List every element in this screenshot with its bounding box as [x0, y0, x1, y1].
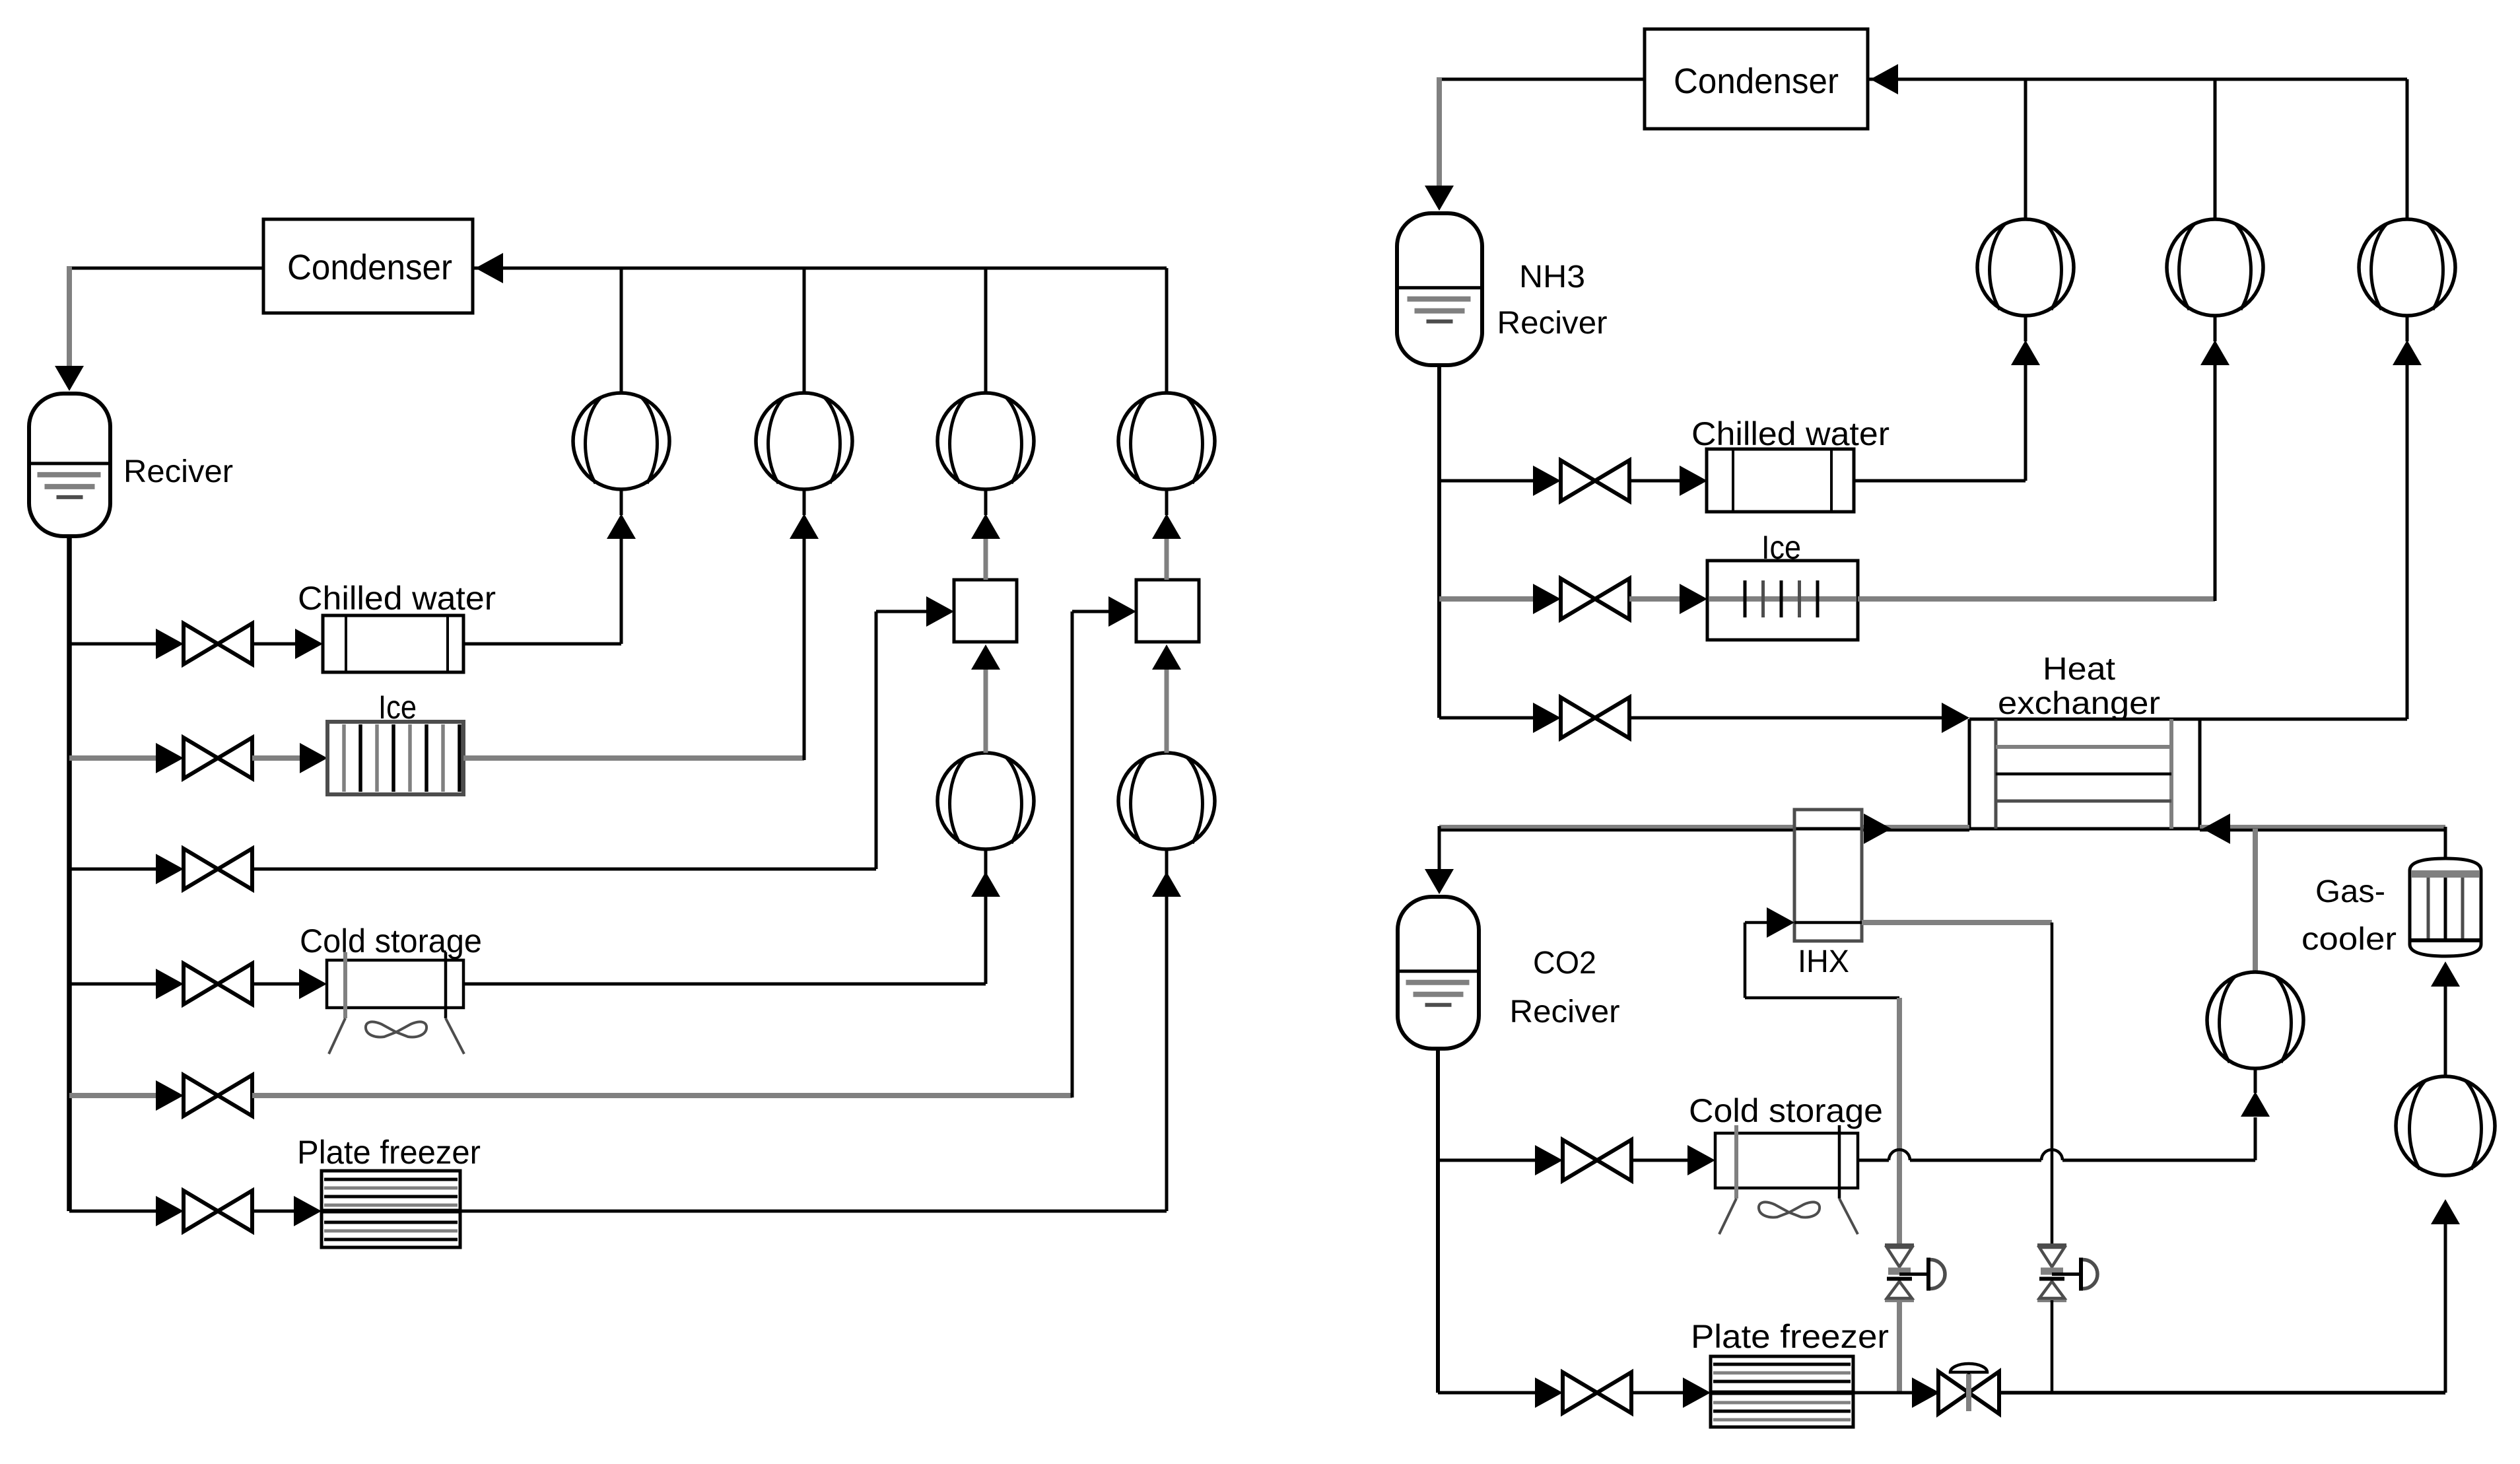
wire: suction into compressor K1	[607, 489, 636, 539]
svg-text:Cold storage: Cold storage	[1689, 1092, 1883, 1129]
wire	[1631, 1145, 1715, 1175]
wire	[1629, 584, 1707, 614]
wire: LP discharge to gas cooler	[2431, 961, 2460, 1076]
svg-text:Ice: Ice	[378, 689, 417, 726]
wire: to intercooler A	[252, 596, 954, 869]
svg-text:Chilled water: Chilled water	[298, 580, 496, 617]
valve heat exchanger feed	[1533, 697, 1629, 738]
wire	[252, 629, 323, 659]
svg-text:cooler: cooler	[2301, 922, 2397, 957]
wire: suction into compressor K3	[971, 489, 1000, 539]
valve intermediate 1	[156, 849, 252, 889]
wire: discharge riser NH3 compressor K9	[2406, 79, 2409, 221]
wire: K6 to intercooler B	[1152, 645, 1181, 753]
wire: CO2 gas into HX (from gas cooler)	[2200, 814, 2447, 858]
evaporator: chilled water (NH3)	[1691, 415, 1890, 512]
wire	[252, 969, 327, 999]
compressor K8	[2167, 219, 2263, 316]
compressor K2	[756, 393, 852, 489]
wire: IHX cold side inlet (from liquid line jog)	[1745, 907, 1899, 1245]
wire: IHX outlet to expansion column	[1862, 923, 2052, 1245]
wire: discharge riser NH3 compressor K8	[2214, 79, 2217, 221]
valve cold storage (CO2)	[1535, 1140, 1631, 1181]
evaporator: ice (left)	[327, 689, 463, 794]
wire: suction arrow K8	[2200, 316, 2230, 365]
compressor K3	[937, 393, 1034, 489]
svg-text:NH3: NH3	[1519, 260, 1585, 295]
wire: cold storage branch	[69, 983, 158, 986]
wire: intercooler A to K3	[984, 539, 988, 580]
wire: intermediate branch 1	[69, 868, 158, 871]
wire: NH3 discharge bus	[1868, 64, 2407, 94]
svg-text:Gas-: Gas-	[2315, 874, 2385, 909]
wire: cold storage branch (CO2)	[1438, 1159, 1538, 1162]
valve intermediate 2	[156, 1075, 252, 1116]
wire: expansion column 1 to plate freezer line	[1897, 1300, 1902, 1393]
wire	[1629, 466, 1707, 496]
evaporator: chilled water (left)	[298, 580, 496, 672]
svg-text:Condenser: Condenser	[287, 248, 452, 287]
condenser (right system)	[1645, 29, 1868, 129]
wire: top discharge bus to condenser	[473, 253, 1167, 283]
compressor K4	[1118, 393, 1215, 489]
svg-text:Reciver: Reciver	[1497, 306, 1608, 341]
compressor CO2 HP	[2207, 972, 2303, 1068]
compressor K6 (low stage)	[1118, 753, 1215, 849]
wire	[252, 743, 327, 773]
wire: discharge riser compressor K1	[620, 268, 623, 394]
wire: ice to K8	[1858, 365, 2215, 601]
valve plate freezer (CO2)	[1535, 1372, 1631, 1413]
wire: intercooler B to K4	[1165, 539, 1169, 580]
wire: to intercooler B	[252, 596, 1136, 1098]
wire: CO2 HP compressor discharge	[2253, 829, 2258, 972]
wire: chilled water to compressor K1	[463, 539, 621, 644]
wire: ice branch (NH3)	[1439, 596, 1537, 602]
compressor K7	[1977, 219, 2074, 316]
intercooler A	[954, 580, 1017, 642]
svg-text:CO2: CO2	[1533, 946, 1596, 981]
wire: NH3 liquid line	[1437, 364, 1441, 718]
svg-text:Cold storage: Cold storage	[300, 923, 482, 959]
wire: CO2 liquid line	[1436, 1047, 1440, 1393]
valve chilled water (NH3)	[1533, 460, 1629, 501]
wire: suction into compressor K2	[790, 489, 819, 539]
wire: chilled water branch	[69, 643, 158, 646]
hand expansion valve (plate freezer suction)	[1938, 1364, 1999, 1414]
wire: suction arrow CO2 HP	[2241, 1068, 2270, 1117]
intercooler B	[1136, 580, 1199, 642]
svg-text:Chilled water: Chilled water	[1691, 415, 1890, 452]
wire: main liquid line	[67, 535, 72, 1211]
compressor K9	[2359, 219, 2455, 316]
svg-text:Condenser: Condenser	[1674, 61, 1839, 101]
wire	[1629, 703, 1969, 733]
wire: discharge riser compressor K3	[984, 268, 988, 394]
wire: heat exchanger feed branch	[1439, 716, 1536, 720]
wire: suction arrow K9	[2393, 316, 2422, 365]
wire: plate freezer outlet	[1853, 1377, 1940, 1408]
valve ice (NH3)	[1533, 578, 1629, 619]
wire: CO2 condensed liquid line (HX to IHX to CO2 receiver)	[1439, 814, 1969, 844]
wire	[1631, 1377, 1711, 1408]
valve cold storage	[156, 963, 252, 1004]
heat exchanger (NH3/CO2 cascade)	[1969, 652, 2200, 829]
wire: condenser outlet to receiver	[55, 266, 263, 391]
wire: ice branch	[69, 755, 160, 761]
wire: ice to compressor K2	[463, 539, 804, 760]
evaporator: cold storage (left) with fan	[300, 923, 482, 1054]
wire: heat exchanger vapour to K9	[2200, 365, 2407, 719]
evaporator: ice (NH3)	[1707, 529, 1858, 640]
svg-text:Plate freezer: Plate freezer	[297, 1134, 481, 1171]
expansion valve (motorised) 2	[2037, 1245, 2097, 1300]
condenser (left system)	[263, 219, 473, 313]
wire: CO2 receiver feed	[1425, 826, 1454, 894]
internal heat exchanger IHX	[1794, 810, 1862, 979]
valve plate freezer	[156, 1191, 252, 1232]
valve ice	[156, 738, 252, 779]
valve chilled water	[156, 623, 252, 664]
wire	[252, 1196, 322, 1226]
svg-text:Reciver: Reciver	[123, 454, 233, 489]
receiver NH3	[1397, 213, 1608, 365]
wire: cold storage outlet to CO2 HP compressor (with crossovers)	[1858, 1117, 2255, 1160]
wire: suction arrow K5	[971, 849, 1000, 897]
wire: chilled water to K7	[1854, 365, 2026, 481]
wire: intermediate branch 2	[69, 1093, 160, 1098]
svg-text:Ice: Ice	[1761, 529, 1801, 566]
wire: K5 to intercooler A	[971, 645, 1000, 753]
evaporator: plate freezer (CO2)	[1691, 1318, 1889, 1427]
receiver CO2	[1398, 897, 1620, 1049]
wire: condenser to NH3 receiver	[1425, 77, 1645, 211]
svg-text:Reciver: Reciver	[1510, 994, 1620, 1029]
wire: suction line to CO2 LP compressor	[1999, 1199, 2460, 1393]
gas cooler	[2301, 858, 2481, 957]
compressor K5 (low stage)	[937, 753, 1034, 849]
compressor K1	[573, 393, 669, 489]
wire: discharge riser NH3 compressor K7	[2024, 79, 2027, 221]
evaporator: cold storage (CO2) with fan	[1689, 1092, 1883, 1234]
wire: chilled water branch (NH3)	[1439, 479, 1536, 483]
wire: expansion column 2 to plate freezer line	[2051, 1300, 2054, 1393]
svg-text:Plate freezer: Plate freezer	[1691, 1318, 1889, 1355]
evaporator: plate freezer (left)	[297, 1134, 481, 1247]
svg-text:exchanger: exchanger	[1998, 686, 2160, 721]
receiver R1 (left)	[29, 394, 233, 536]
wire: plate freezer branch	[69, 1210, 158, 1213]
svg-text:IHX: IHX	[1798, 944, 1849, 979]
wire: discharge riser compressor K2	[803, 268, 806, 394]
wire: discharge riser compressor K4	[1165, 268, 1169, 394]
wire: suction arrow K7	[2011, 316, 2040, 365]
wire: suction arrow K6	[1152, 849, 1181, 897]
svg-text:Heat: Heat	[2043, 652, 2115, 687]
wire: plate freezer to compressor K6	[460, 873, 1167, 1211]
wire: IHX cold side passage	[1794, 921, 1862, 924]
wire: suction into compressor K4	[1152, 489, 1181, 539]
expansion valve (motorised) 1	[1885, 1245, 1945, 1300]
compressor CO2 LP (booster)	[2396, 1076, 2495, 1175]
wire: plate freezer branch (CO2)	[1438, 1391, 1538, 1395]
wire: cold storage to compressor K5	[463, 873, 986, 984]
